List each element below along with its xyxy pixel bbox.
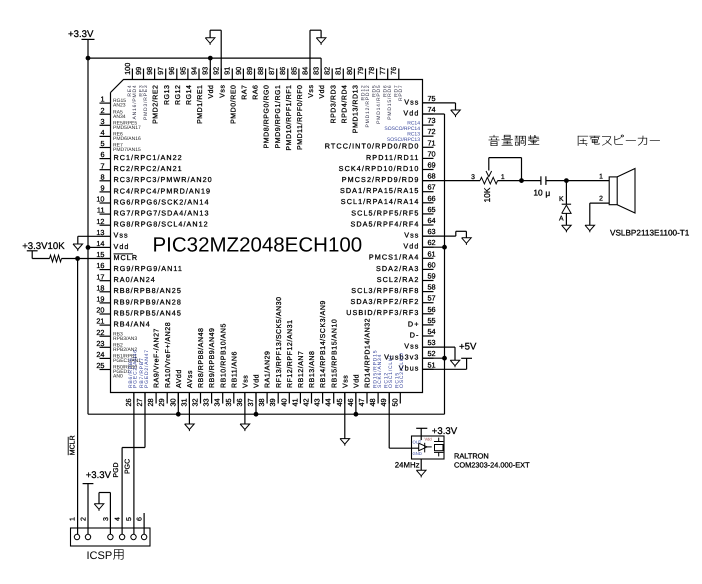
svg-text:1: 1: [69, 517, 76, 521]
svg-text:48: 48: [368, 398, 377, 406]
svg-text:RB9/RPB9/AN28: RB9/RPB9/AN28: [114, 297, 182, 306]
svg-text:92: 92: [212, 67, 221, 75]
svg-text:PMD1/RE1: PMD1/RE1: [196, 85, 204, 124]
svg-text:ICSP: ICSP: [87, 550, 113, 562]
svg-text:PMD3/RPE3: PMD3/RPE3: [143, 85, 149, 121]
svg-text:RC3/RPC3/PMWR/AN20: RC3/RPC3/PMWR/AN20: [114, 175, 213, 184]
svg-text:RC4/RPC4/PMRD/AN19: RC4/RPC4/PMRD/AN19: [114, 186, 212, 195]
svg-text:95: 95: [178, 67, 187, 75]
svg-text:PMCS2/RPD9/RD9: PMCS2/RPD9/RD9: [342, 175, 420, 184]
svg-text:RC2/RPC2/AN21: RC2/RPC2/AN21: [114, 164, 183, 173]
svg-text:RB10/RPB10/AN5: RB10/RPB10/AN5: [219, 323, 227, 388]
svg-text:61: 61: [427, 249, 435, 258]
svg-text:RPD7: RPD7: [398, 85, 404, 102]
svg-text:22: 22: [96, 328, 104, 337]
svg-text:3: 3: [103, 517, 110, 521]
svg-text:PMD9/RPG1/RG1: PMD9/RPG1/RG1: [274, 85, 282, 149]
svg-text:PIC32MZ2048ECH100: PIC32MZ2048ECH100: [153, 234, 363, 257]
svg-text:Vss: Vss: [404, 97, 419, 106]
svg-text:88: 88: [256, 67, 265, 75]
svg-text:Vdd: Vdd: [318, 85, 326, 99]
svg-text:SCL2/RA2: SCL2/RA2: [377, 275, 420, 284]
svg-text:47: 47: [357, 398, 366, 406]
svg-text:97: 97: [156, 67, 165, 75]
svg-text:12: 12: [96, 217, 104, 226]
svg-text:PMD2/RE2: PMD2/RE2: [152, 85, 160, 124]
svg-text:71: 71: [427, 138, 435, 147]
svg-text:6: 6: [137, 517, 144, 521]
svg-text:66: 66: [427, 194, 435, 203]
svg-text:SOSCI/RPC13: SOSCI/RPC13: [387, 137, 420, 143]
svg-text:84: 84: [300, 67, 309, 75]
svg-text:PMD8/RPG0/RG0: PMD8/RPG0/RG0: [263, 85, 271, 149]
svg-text:RG8/RPG8/SCL4/AN12: RG8/RPG8/SCL4/AN12: [114, 220, 209, 229]
svg-text:AN16/PMD4: AN16/PMD4: [132, 85, 138, 120]
svg-text:49: 49: [379, 398, 388, 406]
svg-text:+3.3V10K: +3.3V10K: [22, 241, 65, 252]
svg-text:RB15/RPB15/AN10: RB15/RPB15/AN10: [330, 319, 338, 388]
svg-text:39: 39: [268, 398, 277, 406]
svg-text:SDA5/RPF4/RF4: SDA5/RPF4/RF4: [350, 219, 419, 228]
svg-text:AN34: AN34: [113, 114, 126, 120]
svg-text:44: 44: [324, 398, 333, 406]
svg-text:RB13/AN8: RB13/AN8: [308, 351, 316, 388]
svg-text:2: 2: [599, 195, 603, 202]
svg-text:PMCS1/RA4: PMCS1/RA4: [369, 253, 420, 262]
svg-text:52: 52: [427, 349, 435, 358]
svg-text:SDA1/RPA15/RA15: SDA1/RPA15/RA15: [340, 186, 420, 195]
svg-text:RA7: RA7: [242, 85, 249, 100]
svg-text:36: 36: [235, 398, 244, 406]
svg-text:51: 51: [427, 360, 435, 369]
svg-text:D+: D+: [408, 319, 420, 328]
svg-text:Vdd: Vdd: [207, 85, 215, 99]
svg-text:Vss: Vss: [308, 85, 315, 98]
svg-text:Vss: Vss: [243, 375, 250, 388]
svg-text:5: 5: [100, 139, 104, 148]
svg-text:24: 24: [96, 350, 104, 359]
svg-text:Vdd: Vdd: [403, 242, 419, 251]
svg-text:5: 5: [126, 517, 133, 521]
svg-text:RA9/VreF-/AN27: RA9/VreF-/AN27: [153, 328, 161, 388]
svg-text:41: 41: [290, 398, 299, 406]
svg-text:RB14/RPB14/SCK3/AN9: RB14/RPB14/SCK3/AN9: [319, 300, 327, 388]
svg-text:PMD15/RD6: PMD15/RD6: [387, 85, 393, 120]
svg-text:3: 3: [100, 117, 104, 126]
svg-text:10: 10: [96, 195, 104, 204]
svg-text:21: 21: [96, 317, 104, 326]
svg-text:PMD5/AN17: PMD5/AN17: [113, 125, 141, 131]
svg-text:30: 30: [168, 398, 177, 406]
svg-text:11: 11: [97, 206, 105, 215]
svg-text:34: 34: [213, 398, 222, 406]
svg-text:Vss: Vss: [404, 231, 419, 240]
svg-text:OSC2/CLKO: OSC2/CLKO: [399, 352, 405, 388]
svg-text:RB12/AN7: RB12/AN7: [297, 351, 305, 388]
svg-text:7: 7: [100, 161, 104, 170]
svg-text:19: 19: [96, 295, 104, 304]
svg-text:100: 100: [123, 63, 132, 75]
svg-text:75: 75: [427, 94, 435, 103]
svg-text:PGD: PGD: [113, 462, 120, 477]
svg-text:A: A: [559, 216, 564, 223]
svg-text:+5V: +5V: [459, 341, 477, 352]
svg-text:58: 58: [427, 283, 435, 292]
svg-text:SCK4/RPD10/RD10: SCK4/RPD10/RD10: [339, 164, 420, 173]
svg-text:PMD10/RPF1/RF1: PMD10/RPF1/RF1: [285, 85, 293, 151]
svg-text:4: 4: [115, 517, 122, 521]
svg-text:81: 81: [334, 67, 343, 75]
svg-text:PGC: PGC: [125, 459, 132, 474]
svg-text:Vss: Vss: [219, 85, 226, 98]
svg-text:RALTRON: RALTRON: [454, 452, 489, 461]
svg-text:PGEC2/AN46: PGEC2/AN46: [133, 349, 139, 388]
svg-text:90: 90: [234, 67, 243, 75]
svg-text:RA10/VreF+/AN28: RA10/VreF+/AN28: [164, 322, 172, 388]
svg-text:63: 63: [427, 227, 435, 236]
svg-text:72: 72: [427, 127, 435, 136]
svg-text:+3.3V: +3.3V: [68, 29, 94, 40]
svg-text:AVdd: AVdd: [175, 369, 183, 388]
svg-text:PMD13/RD13: PMD13/RD13: [352, 85, 360, 134]
svg-text:OUT: OUT: [413, 440, 422, 445]
svg-text:K: K: [559, 196, 564, 203]
svg-text:96: 96: [167, 67, 176, 75]
svg-text:Vdd: Vdd: [425, 437, 432, 442]
svg-text:Vdd: Vdd: [114, 242, 130, 251]
svg-text:62: 62: [427, 238, 435, 247]
svg-text:RD14/RPD14/AN32: RD14/RPD14/AN32: [364, 318, 372, 388]
svg-text:GND: GND: [413, 451, 422, 456]
svg-text:MCLR: MCLR: [70, 435, 77, 455]
svg-text:RA6: RA6: [253, 85, 260, 100]
svg-text:SDA3/RPF2/RF2: SDA3/RPF2/RF2: [350, 297, 419, 306]
svg-text:69: 69: [427, 161, 435, 170]
svg-text:RB5/RPB5/AN45: RB5/RPB5/AN45: [114, 308, 182, 317]
svg-text:24MHz: 24MHz: [395, 461, 420, 470]
svg-text:54: 54: [427, 327, 435, 336]
svg-text:AN23: AN23: [113, 103, 126, 109]
svg-text:μ: μ: [545, 188, 550, 198]
svg-text:RC1/RPC1/AN22: RC1/RPC1/AN22: [114, 153, 183, 162]
svg-text:RPD4/RD4: RPD4/RD4: [340, 85, 348, 124]
svg-text:35: 35: [224, 398, 233, 406]
svg-text:2: 2: [100, 106, 104, 115]
svg-text:25: 25: [96, 361, 104, 370]
svg-text:57: 57: [427, 294, 435, 303]
svg-text:RB9/RPB9/AN49: RB9/RPB9/AN49: [208, 328, 216, 388]
svg-text:RG7/RPG7/SDA4/AN13: RG7/RPG7/SDA4/AN13: [114, 209, 210, 218]
svg-text:16: 16: [96, 261, 104, 270]
svg-text:78: 78: [367, 67, 376, 75]
svg-text:4: 4: [100, 128, 104, 137]
svg-text:86: 86: [278, 67, 287, 75]
svg-text:VSLBP2113E1100-T1: VSLBP2113E1100-T1: [610, 229, 690, 238]
svg-text:40: 40: [279, 398, 288, 406]
svg-text:RB11/AN6: RB11/AN6: [230, 351, 238, 388]
svg-text:10K: 10K: [482, 187, 492, 202]
svg-text:SCL5/RPF5/RF5: SCL5/RPF5/RF5: [351, 208, 419, 217]
svg-text:AVss: AVss: [187, 370, 194, 388]
svg-text:77: 77: [378, 67, 387, 75]
svg-text:SCL3/RPF8/RF8: SCL3/RPF8/RF8: [351, 286, 419, 295]
svg-text:RA1/AN29: RA1/AN29: [264, 351, 272, 388]
svg-text:PMD0/RE0: PMD0/RE0: [229, 85, 237, 124]
svg-text:73: 73: [427, 116, 435, 125]
svg-text:67: 67: [427, 183, 435, 192]
svg-text:3: 3: [471, 174, 475, 181]
svg-text:Vss: Vss: [342, 375, 349, 388]
svg-text:38: 38: [257, 398, 266, 406]
svg-text:76: 76: [389, 67, 398, 75]
svg-text:1: 1: [599, 173, 603, 180]
svg-text:RF13/RPF13/SCK5/AN30: RF13/RPF13/SCK5/AN30: [275, 296, 283, 388]
svg-text:26: 26: [124, 398, 133, 406]
svg-text:RB8/RPB8/AN25: RB8/RPB8/AN25: [114, 286, 182, 295]
svg-text:53: 53: [427, 338, 435, 347]
svg-text:83: 83: [312, 67, 321, 75]
svg-text:+3.3V: +3.3V: [432, 426, 458, 437]
svg-text:91: 91: [223, 67, 232, 75]
svg-text:45: 45: [335, 398, 344, 406]
svg-text:RPD11/RD11: RPD11/RD11: [366, 153, 419, 162]
svg-text:AN0: AN0: [113, 374, 123, 380]
svg-text:PMD7/AN15: PMD7/AN15: [113, 147, 141, 153]
svg-text:RF12/RPF12/AN31: RF12/RPF12/AN31: [286, 319, 294, 388]
svg-text:17: 17: [96, 272, 104, 281]
svg-text:9: 9: [100, 184, 104, 193]
svg-text:65: 65: [427, 205, 435, 214]
svg-text:32: 32: [191, 398, 200, 406]
svg-text:COM2303-24.000-EXT: COM2303-24.000-EXT: [454, 461, 530, 470]
svg-text:46: 46: [346, 398, 355, 406]
svg-text:89: 89: [245, 67, 254, 75]
svg-text:Vdd: Vdd: [403, 108, 419, 117]
svg-text:99: 99: [134, 67, 143, 75]
svg-text:87: 87: [267, 67, 276, 75]
svg-text:RG12: RG12: [175, 85, 182, 106]
svg-text:15: 15: [96, 250, 104, 259]
svg-text:80: 80: [345, 67, 354, 75]
svg-text:10: 10: [533, 187, 543, 197]
svg-text:64: 64: [427, 216, 435, 225]
svg-text:85: 85: [289, 67, 298, 75]
svg-text:56: 56: [427, 305, 435, 314]
svg-text:94: 94: [189, 67, 198, 75]
svg-text:28: 28: [146, 398, 155, 406]
svg-text:55: 55: [427, 316, 435, 325]
svg-text:RB4/AN4: RB4/AN4: [114, 320, 151, 329]
svg-text:USBID/RPF3/RF3: USBID/RPF3/RF3: [346, 308, 419, 317]
svg-text:60: 60: [427, 260, 435, 269]
svg-text:Vss: Vss: [404, 342, 419, 351]
svg-text:42: 42: [302, 398, 311, 406]
svg-text:Vdd: Vdd: [253, 374, 261, 388]
svg-text:D-: D-: [410, 330, 420, 339]
svg-text:PMD12/RPD12: PMD12/RPD12: [365, 85, 371, 128]
svg-text:14: 14: [96, 239, 104, 248]
svg-text:RA0/AN24: RA0/AN24: [114, 275, 156, 284]
svg-text:2: 2: [80, 517, 87, 521]
svg-text:1: 1: [501, 174, 505, 181]
svg-text:8: 8: [100, 172, 104, 181]
svg-text:82: 82: [323, 67, 332, 75]
svg-text:79: 79: [356, 67, 365, 75]
svg-text:RPB3/AN3: RPB3/AN3: [113, 336, 137, 342]
svg-text:1: 1: [100, 95, 104, 104]
svg-text:PMD6/AN16: PMD6/AN16: [113, 136, 141, 142]
svg-text:29: 29: [157, 398, 166, 406]
svg-text:RG9/RPG9/AN11: RG9/RPG9/AN11: [114, 264, 183, 273]
svg-text:74: 74: [427, 105, 435, 114]
svg-text:RB8/RPB8/AN48: RB8/RPB8/AN48: [197, 328, 205, 388]
svg-text:RG6/RPG6/SCK2/AN14: RG6/RPG6/SCK2/AN14: [114, 197, 210, 206]
svg-text:OSC1/CLKI: OSC1/CLKI: [388, 355, 394, 388]
svg-text:33: 33: [202, 398, 211, 406]
svg-text:+3.3V: +3.3V: [86, 470, 112, 481]
svg-text:43: 43: [313, 398, 322, 406]
svg-text:RTCC/INT0/RPD0/RD0: RTCC/INT0/RPD0/RD0: [325, 142, 420, 151]
svg-text:RG14: RG14: [186, 85, 193, 106]
svg-text:37: 37: [246, 398, 255, 406]
svg-text:23: 23: [96, 339, 104, 348]
svg-text:13: 13: [96, 228, 104, 237]
svg-text:PMD11/RPF0/RF0: PMD11/RPF0/RF0: [296, 85, 304, 151]
svg-text:RG13: RG13: [164, 85, 171, 106]
svg-text:20: 20: [96, 306, 104, 315]
svg-text:18: 18: [96, 283, 104, 292]
svg-text:SCL1/RPA14/RA14: SCL1/RPA14/RA14: [341, 197, 420, 206]
svg-text:68: 68: [427, 172, 435, 181]
svg-text:27: 27: [135, 398, 144, 406]
svg-text:Vdd: Vdd: [353, 374, 361, 388]
svg-text:93: 93: [201, 67, 210, 75]
svg-text:50: 50: [390, 398, 399, 406]
svg-text:SCK6/AN34: SCK6/AN34: [377, 354, 383, 388]
svg-text:98: 98: [145, 67, 154, 75]
svg-text:31: 31: [179, 398, 188, 406]
svg-text:Vss: Vss: [114, 231, 129, 240]
svg-text:70: 70: [427, 149, 435, 158]
svg-text:RPD3/RD3: RPD3/RD3: [329, 85, 337, 124]
svg-text:PMD14/RPD5: PMD14/RPD5: [376, 85, 382, 124]
svg-text:6: 6: [100, 150, 104, 159]
svg-text:PGED2/AN47: PGED2/AN47: [144, 349, 150, 388]
svg-text:59: 59: [427, 272, 435, 281]
svg-text:SDA2/RA3: SDA2/RA3: [376, 264, 420, 273]
